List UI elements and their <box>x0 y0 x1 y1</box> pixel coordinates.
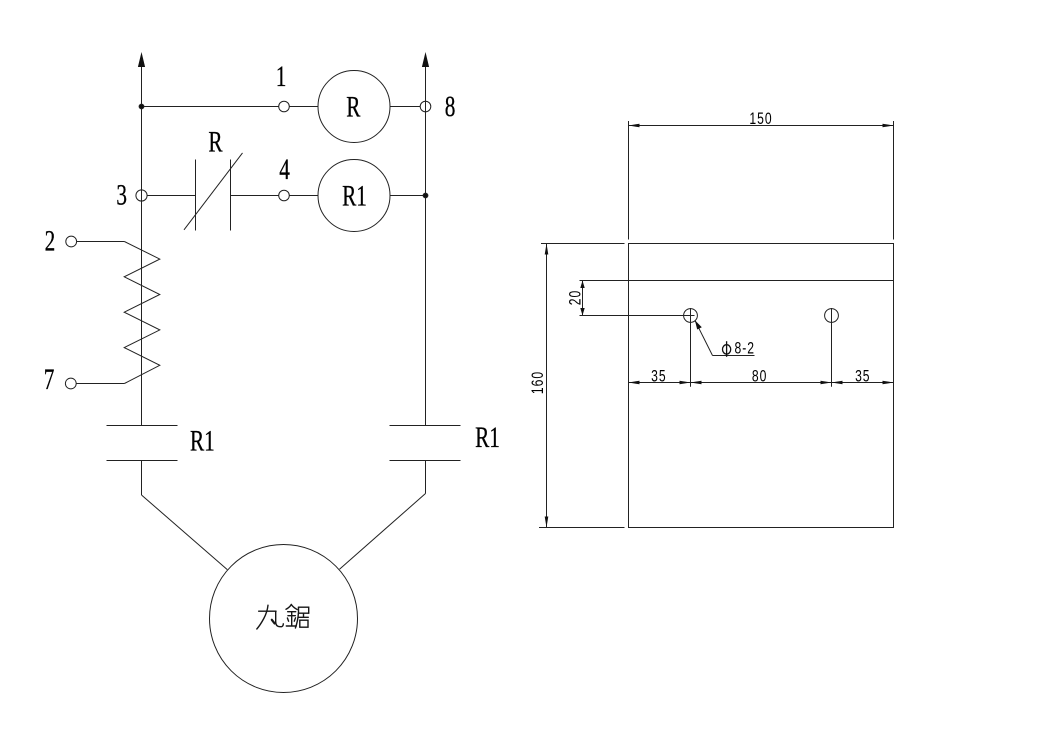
svg-text:35: 35 <box>855 368 870 386</box>
svg-text:7: 7 <box>44 363 55 396</box>
svg-text:8: 8 <box>445 90 456 123</box>
svg-text:80: 80 <box>752 368 767 386</box>
svg-text:R1: R1 <box>190 424 215 457</box>
svg-text:4: 4 <box>279 153 290 186</box>
svg-text:3: 3 <box>116 178 127 211</box>
svg-text:35: 35 <box>651 368 666 386</box>
svg-text:160: 160 <box>530 371 548 394</box>
svg-text:R: R <box>346 90 361 123</box>
svg-text:R1: R1 <box>475 420 500 453</box>
svg-text:1: 1 <box>276 60 287 93</box>
svg-text:R: R <box>208 125 223 158</box>
svg-text:20: 20 <box>567 290 585 305</box>
svg-text:2: 2 <box>45 224 56 257</box>
svg-text:8-2: 8-2 <box>735 340 755 358</box>
svg-text:150: 150 <box>749 110 772 128</box>
svg-text:R1: R1 <box>342 179 367 212</box>
